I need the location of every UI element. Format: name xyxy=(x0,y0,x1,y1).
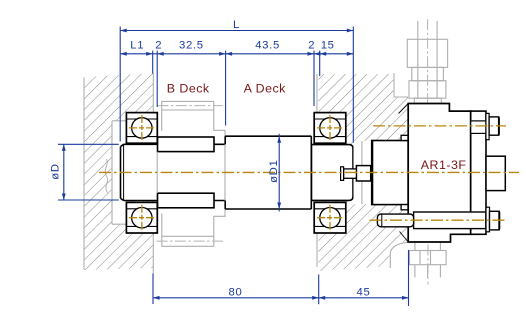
stud nut upper on neck xyxy=(401,135,408,140)
shaft break wavy line in wall xyxy=(105,159,107,193)
top tie bolt xyxy=(471,113,499,139)
bottom bolt centerline xyxy=(370,219,506,221)
shaft body oD section xyxy=(121,144,226,200)
right bulkhead wall hatched section (A deck) xyxy=(317,73,408,271)
machine AR1-3F body xyxy=(408,104,471,243)
main shaft body oD1 section xyxy=(225,136,311,209)
machine center boss xyxy=(486,156,505,190)
svg-text:B Deck: B Deck xyxy=(167,81,210,95)
dimension oD1 vertical xyxy=(277,134,281,212)
bearing block upper right xyxy=(314,113,346,144)
shaft stub end cap xyxy=(341,167,344,181)
svg-text:AR1-3F: AR1-3F xyxy=(421,158,467,172)
ghost fitting stack vertical centerline bottom xyxy=(427,226,429,285)
svg-text:2: 2 xyxy=(155,40,162,52)
ghost coupling outline verticals xyxy=(361,141,363,204)
bearing center cross lower right xyxy=(317,205,343,232)
main horizontal centerline xyxy=(99,171,519,173)
svg-text:øD: øD xyxy=(50,163,62,179)
top bolt centerline xyxy=(373,125,506,127)
bearing center cross upper left xyxy=(129,115,155,142)
ghost casing foot curve bottom right xyxy=(390,243,407,269)
wall hole air gap left of machine face xyxy=(354,141,372,204)
svg-text:L: L xyxy=(233,19,240,31)
collar sleeve lower xyxy=(158,193,215,208)
bearing block upper left xyxy=(126,113,157,144)
bearing block lower right xyxy=(314,202,346,233)
extension lines bottom dimensions xyxy=(153,250,409,306)
svg-text:45: 45 xyxy=(357,286,371,298)
bottom tie bolt xyxy=(377,207,499,232)
ghost housing centerline bottom xyxy=(157,240,224,242)
collar sleeve upper xyxy=(158,137,215,152)
svg-text:32.5: 32.5 xyxy=(179,40,204,52)
machine corner weld diagonal bottom xyxy=(400,232,409,243)
bearing center cross upper right xyxy=(317,115,343,142)
ghost valve stack vertical centerline top xyxy=(427,19,429,107)
left wall pedestal notch xyxy=(112,121,126,224)
bottom dimension line 80 and 45 xyxy=(153,296,409,300)
bearing center cross lower left xyxy=(129,205,155,232)
ghost gland housing below collar xyxy=(162,209,225,246)
deck and machine labels maroon xyxy=(167,81,467,172)
dimension text labels blue xyxy=(50,19,371,299)
dimension L line xyxy=(120,29,353,33)
hidden gland edge line xyxy=(224,144,226,200)
ghost fitting stack below machine xyxy=(409,242,446,277)
left bulkhead wall hatched section (B deck) xyxy=(84,73,153,273)
bearing block lower left xyxy=(126,202,157,233)
machine suction neck through wall xyxy=(372,141,409,205)
stud nut lower on neck xyxy=(401,205,408,210)
shaft stub rod xyxy=(344,169,357,178)
svg-text:80: 80 xyxy=(229,286,243,298)
ghost valve stack above machine xyxy=(407,21,447,104)
machine corner weld diagonal top xyxy=(399,104,409,114)
dimension oD vertical xyxy=(58,144,119,200)
machine mounting face line xyxy=(371,141,373,205)
svg-text:15: 15 xyxy=(321,40,335,52)
coupling hub xyxy=(356,166,370,181)
ghost seal line between collars xyxy=(156,152,158,194)
dimension chain line row xyxy=(120,52,353,56)
ghost gland housing above collar xyxy=(162,101,225,136)
svg-text:43.5: 43.5 xyxy=(255,40,280,52)
svg-text:2: 2 xyxy=(308,40,315,52)
right bearing journal section xyxy=(312,145,354,201)
extension lines top dimensions xyxy=(120,27,353,143)
machine end cover plate xyxy=(471,111,486,234)
ghost housing centerline top xyxy=(157,105,223,107)
svg-text:øD1: øD1 xyxy=(268,159,280,182)
svg-text:L1: L1 xyxy=(130,40,144,52)
svg-text:A Deck: A Deck xyxy=(244,81,287,95)
